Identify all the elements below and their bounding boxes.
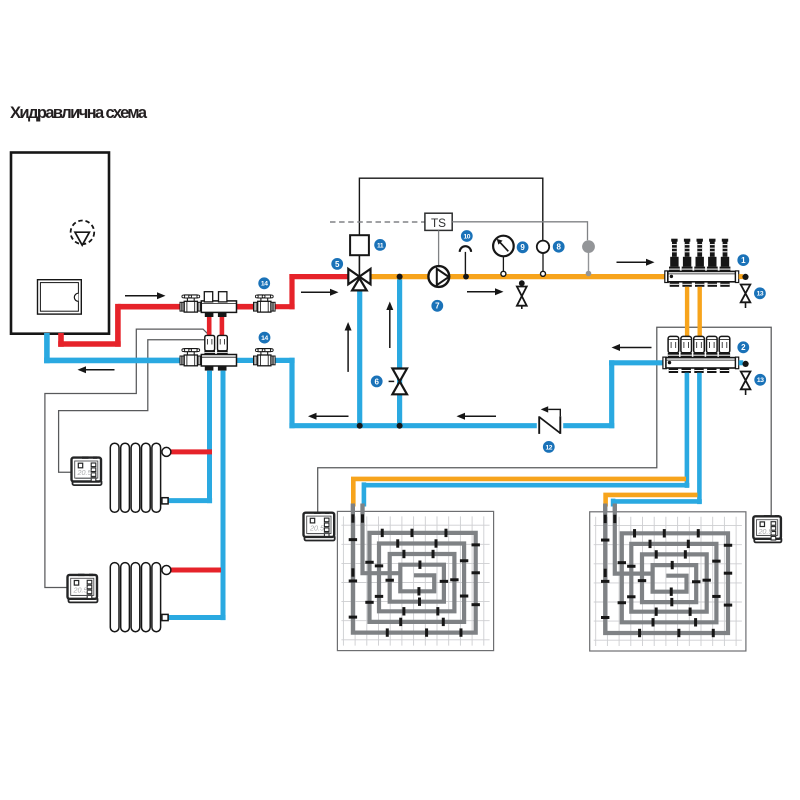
temperature sensor 10	[460, 246, 471, 252]
gray sensor pipe dot	[586, 271, 592, 277]
boiler	[11, 153, 109, 334]
arrow supply right (to valve)	[301, 289, 339, 296]
check valve flow arrow	[541, 406, 561, 412]
label 5	[331, 258, 343, 270]
svg-text:1: 1	[741, 256, 746, 265]
floor heating zone 2	[590, 504, 746, 651]
blue pipe from mixing valve down	[357, 290, 362, 428]
red separator body	[201, 301, 236, 313]
red pipe to mixing valve	[289, 274, 350, 279]
blue separator body	[201, 355, 236, 367]
mixing valve 5 (3-way)	[348, 269, 359, 284]
blue main return line	[289, 423, 614, 428]
blue return riser at manifold 2	[609, 360, 614, 428]
blue pipe separator to valve	[236, 358, 258, 363]
blue separator bottom ports	[205, 366, 214, 371]
svg-text:TS: TS	[431, 216, 446, 230]
svg-text:13: 13	[757, 291, 764, 298]
boiler door handle	[74, 293, 78, 301]
red pipe riser	[115, 304, 121, 347]
sensor 8 pipe connection	[541, 271, 546, 276]
zone valve actuators on blue separator	[205, 335, 215, 350]
red radiator branch 1	[168, 449, 212, 454]
arrow supply right (after pump)	[467, 288, 504, 295]
manifold 1 bottom ports	[670, 282, 730, 287]
arrow supply right at manifold	[617, 259, 655, 266]
gray wire TS to gray sensor	[452, 222, 587, 240]
arrow up bypass left	[345, 322, 352, 372]
floor heating zone 1	[337, 504, 493, 651]
room thermostat RT4	[753, 515, 781, 542]
valve 14b on blue line	[254, 349, 276, 366]
manifold 2 end dot	[743, 361, 749, 367]
red pipe corner riser	[289, 274, 294, 309]
room thermostat RT1	[72, 456, 102, 485]
svg-text:9: 9	[520, 243, 525, 252]
gray wire TS to pump	[438, 230, 440, 266]
svg-text:2: 2	[741, 343, 746, 352]
blue return into manifold 2	[609, 360, 666, 365]
gray sensor stem	[588, 253, 590, 271]
blue pipe corner down	[289, 358, 294, 429]
label 13b	[754, 374, 766, 386]
label 2	[737, 341, 749, 353]
label 6	[371, 376, 383, 388]
svg-text:13: 13	[757, 377, 764, 384]
wire from radiator thermostat RT2 to valve actuator (outer run)	[45, 329, 208, 587]
sensor 10 pipe dot	[463, 274, 469, 280]
svg-text:8: 8	[556, 243, 561, 252]
gauge 9 pipe connection	[501, 271, 506, 276]
svg-text:20.5: 20.5	[309, 523, 325, 532]
svg-text:20.5: 20.5	[76, 468, 92, 477]
label 12	[543, 441, 555, 453]
wire from radiator thermostat RT1 to valve actuator (inner run)	[59, 340, 210, 473]
blue pipe manifold 2 to zone 1	[364, 373, 690, 507]
blue return to separator	[44, 358, 184, 364]
label 7	[431, 300, 443, 312]
manifold 2 outlet stub	[739, 360, 744, 365]
manifold 1 flow meters	[669, 239, 730, 272]
radiator 2	[110, 563, 160, 632]
manifold 1 outlet stub	[739, 274, 744, 279]
label 11	[374, 239, 386, 251]
ball valve on red separator inlet	[180, 295, 202, 312]
red vertical link pipes to zone valves	[207, 315, 212, 338]
orange pipe to zone 1	[351, 477, 686, 507]
manifold 2 actuators	[668, 336, 730, 357]
zone 1 entry stubs	[351, 504, 355, 513]
svg-text:Хидравлична схема: Хидравлична схема	[10, 104, 148, 122]
svg-text:20.5: 20.5	[72, 586, 88, 595]
sensor 8 circle	[537, 241, 549, 253]
label 10	[461, 230, 473, 242]
red radiator branch 2	[168, 568, 221, 573]
svg-text:14: 14	[261, 281, 268, 288]
blue radiator pipe 1	[165, 371, 212, 504]
drain valve	[517, 287, 527, 306]
blue radiator pipe 2	[165, 371, 226, 620]
label 13a	[754, 287, 766, 299]
dashed control line	[330, 221, 425, 223]
junction dot on orange line	[397, 274, 403, 280]
blue pipe boiler down	[44, 333, 50, 363]
arrow return left (boiler)	[78, 366, 115, 373]
svg-text:20.5: 20.5	[757, 527, 773, 536]
arrow return left A	[308, 413, 349, 420]
svg-text:5: 5	[335, 260, 340, 269]
orange pipe to zone 2	[603, 493, 697, 507]
svg-text:6: 6	[374, 377, 379, 386]
junction dot B	[397, 423, 403, 429]
arrow return left B	[457, 413, 497, 420]
orange supply line	[370, 274, 668, 279]
boiler pump symbol (dashed circle)	[71, 221, 95, 245]
pump 7	[428, 266, 449, 287]
zone 2 entry stubs	[603, 504, 607, 513]
svg-text:12: 12	[545, 444, 552, 451]
red pipe boiler down	[58, 333, 64, 347]
valve 13b	[741, 372, 751, 390]
TS controller box	[425, 213, 452, 230]
label 9	[517, 241, 529, 253]
red pipe to separator	[118, 304, 184, 310]
blue pipe after valve 14b	[271, 358, 295, 363]
wire from floor thermostat RT3 to manifold 2 actuators and to floor thermostat RT4	[318, 327, 772, 516]
radiator 2 top port	[162, 566, 171, 575]
label 14a	[258, 277, 270, 289]
valve 13a	[741, 285, 751, 303]
blue bypass pipe with valve 6	[397, 279, 402, 428]
valve 14a on red line	[254, 295, 276, 312]
room thermostat RT3	[304, 512, 335, 541]
radiator 1	[110, 443, 160, 512]
radiator 2 bottom port	[162, 614, 168, 620]
arrow supply right (boiler)	[125, 292, 166, 299]
room thermostat RT2	[68, 574, 98, 603]
arrow up bypass right	[386, 302, 393, 349]
sensor 8 stem	[542, 253, 544, 272]
check valve 12	[537, 415, 563, 437]
boiler burner door	[38, 280, 82, 314]
label 14b	[259, 332, 271, 344]
label 8	[553, 241, 565, 253]
thermometer gauge 9	[493, 236, 514, 257]
red separator bottom ports	[205, 312, 214, 317]
manifold 2 body	[663, 357, 666, 369]
valve 6	[389, 380, 395, 382]
radiator 1 top port	[162, 447, 171, 456]
boiler pump triangle	[75, 232, 89, 245]
wire from actuator over top to sensor 8	[359, 178, 542, 241]
red pipe bottom horizontal	[58, 341, 120, 347]
manifold 1 body	[665, 271, 668, 283]
svg-text:11: 11	[377, 242, 384, 249]
svg-text:10: 10	[463, 233, 470, 240]
orange pipes down from manifold 1	[685, 287, 689, 338]
drain valve dot	[519, 280, 525, 286]
red pipe separator to valve	[236, 304, 258, 310]
ball valve on blue separator inlet	[180, 349, 202, 366]
label 1	[737, 254, 749, 266]
svg-text:7: 7	[435, 302, 440, 311]
actuator box 11	[350, 235, 369, 255]
red pipe after valve 14	[271, 304, 295, 309]
junction dot A	[357, 423, 363, 429]
blue pipe manifold 2 to zone 2	[613, 373, 702, 507]
manifold 1 end dot	[742, 274, 748, 280]
gauge 9 stem	[502, 256, 504, 271]
red separator top caps	[204, 292, 212, 302]
radiator 1 bottom port	[162, 498, 168, 504]
gray sensor well	[582, 240, 595, 253]
svg-text:14: 14	[261, 335, 268, 342]
arrow return left at manifold	[612, 344, 652, 351]
manifold 2 bottom ports	[669, 368, 730, 373]
